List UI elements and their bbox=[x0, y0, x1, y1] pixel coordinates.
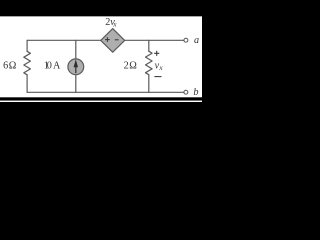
wire bottom bbox=[27, 91, 184, 93]
svg-text:0: 0 bbox=[47, 61, 52, 72]
svg-text:Ω: Ω bbox=[9, 61, 17, 72]
wire left leg top bbox=[26, 40, 28, 51]
svg-text:x: x bbox=[158, 63, 163, 72]
svg-text:b: b bbox=[193, 87, 198, 98]
wire 2 ohm leg top bbox=[148, 40, 150, 51]
svg-text:x: x bbox=[112, 19, 117, 28]
terminal a circle bbox=[184, 38, 188, 42]
svg-text:6: 6 bbox=[3, 61, 8, 72]
white sliver below shadow band bbox=[0, 101, 202, 102]
resistor 2 ohm zigzag bbox=[146, 51, 153, 74]
white figure box bbox=[0, 16, 202, 97]
wire left leg bottom bbox=[26, 75, 28, 93]
resistor 6 ohm zigzag bbox=[24, 51, 31, 75]
minus polarity mark near 2 ohm bbox=[154, 76, 161, 78]
dependent source 2vx diamond bbox=[101, 29, 125, 53]
transparent margins flattened to black bbox=[0, 0, 231, 102]
terminal b circle bbox=[184, 90, 188, 94]
current source 10A circle bbox=[68, 59, 84, 75]
svg-text:a: a bbox=[194, 35, 199, 46]
wire source leg bottom bbox=[75, 75, 77, 92]
plus sign inside diamond bbox=[105, 37, 110, 42]
current source arrow bbox=[74, 59, 79, 73]
minus sign inside diamond bbox=[115, 39, 119, 41]
wire source leg top bbox=[75, 40, 77, 58]
plus polarity mark near 2 ohm bbox=[154, 51, 159, 56]
wire 2 ohm leg bottom bbox=[148, 75, 150, 93]
wire top left segment bbox=[27, 39, 101, 41]
svg-text:2: 2 bbox=[124, 61, 129, 72]
wire top right segment bbox=[124, 39, 184, 41]
svg-text:Ω: Ω bbox=[129, 61, 137, 72]
svg-text:A: A bbox=[53, 61, 61, 72]
